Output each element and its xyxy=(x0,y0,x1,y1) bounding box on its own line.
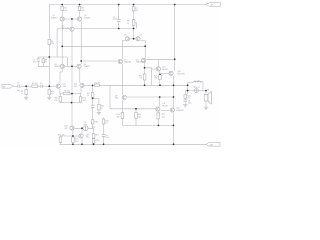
junction (93.5,144.3) xyxy=(93,143,95,145)
resistor x136 pulldown xyxy=(135,113,138,119)
svg-text:2SC5200: 2SC5200 xyxy=(177,73,184,75)
capacitor C3 series xyxy=(41,85,42,88)
wire y46.3 line to VAS xyxy=(62,45,145,47)
transistor Q5 helper xyxy=(70,27,74,31)
resistor bias column lower a xyxy=(92,134,95,139)
wire output line2 y95.4 xyxy=(127,96,174,98)
junction (133.6,4.5) xyxy=(133,4,135,6)
resistor x92.6 bias feed xyxy=(91,120,94,124)
junction (103.5,144.3) xyxy=(103,143,105,145)
wire C2 branch xyxy=(37,57,39,67)
wire input line flag to C1 xyxy=(13,85,18,87)
svg-text:1k: 1k xyxy=(45,62,47,64)
wire inductor right leg xyxy=(202,83,204,91)
junction (118.7,4.5) xyxy=(118,4,120,6)
junction (72,66.3) xyxy=(71,65,73,67)
svg-text:8R: 8R xyxy=(207,90,210,92)
wire x136 pulldown R column xyxy=(135,109,137,126)
transistor Q4 cascode xyxy=(77,64,81,68)
wire Q11 emitter up xyxy=(159,97,161,107)
wire Q9b collector up xyxy=(81,128,83,133)
wire input shunt R leg xyxy=(25,86,27,97)
wire LTP-R base to feedback node xyxy=(85,84,93,86)
transistor QA vas upper left xyxy=(125,37,129,41)
wire zobel branch xyxy=(185,91,187,105)
wire QD node to Q8 base xyxy=(145,68,157,69)
wire Q11 collector down through R xyxy=(158,112,159,126)
wire y66.6 bottom of RC xyxy=(38,66,49,68)
svg-text:2SC: 2SC xyxy=(115,98,119,100)
wire x110 corner down to lower driver base line xyxy=(110,85,155,109)
transistor Q8 bias xyxy=(156,67,160,71)
svg-text:100n: 100n xyxy=(188,102,192,104)
junction (160,85.3) xyxy=(159,84,161,86)
transistor LTP left xyxy=(56,84,60,88)
wire Q12 collector to V- rail xyxy=(173,113,175,145)
resistor Q11 collector xyxy=(157,113,160,119)
svg-text:100u: 100u xyxy=(105,137,109,139)
fuse/meter element on output line xyxy=(194,89,198,93)
wire Q5 base to x57 column xyxy=(57,29,69,57)
svg-text:100: 100 xyxy=(82,10,85,12)
wire speaker to ground xyxy=(205,101,207,107)
net flag -V xyxy=(206,143,220,147)
svg-text:R9 47k: R9 47k xyxy=(95,82,101,84)
junction (62.2,4.5) xyxy=(61,4,63,6)
resistor fb shunt xyxy=(98,104,101,110)
wire QB emitter to QD collector xyxy=(141,40,146,59)
resistor QE emitter xyxy=(121,113,124,119)
wire Q4 collector to VAS base xyxy=(81,60,118,62)
wire QA-QB base wire xyxy=(130,38,136,40)
resistor feedback series xyxy=(94,84,99,86)
transistor LTP right xyxy=(80,83,84,87)
svg-text:RE 100: RE 100 xyxy=(64,91,70,93)
svg-text:47u: 47u xyxy=(33,62,36,64)
svg-text:2SA970: 2SA970 xyxy=(54,65,60,68)
junction (72.9,144.3) xyxy=(72,143,74,145)
resistor R4 xyxy=(42,59,45,63)
svg-text:100p: 100p xyxy=(113,19,117,21)
wire y57 bias line xyxy=(38,56,68,58)
wire QD emitter down to dot xyxy=(143,63,145,85)
transistor Q10 upper driver xyxy=(169,71,173,75)
junction (158.4,125.4) xyxy=(158,125,160,127)
wire QC emitter to QE base xyxy=(121,64,123,95)
transistor Q11 lower driver xyxy=(156,107,160,111)
wire bias column to rail xyxy=(93,128,95,144)
svg-text:2k2: 2k2 xyxy=(135,10,138,12)
wire R7 column x133.6 xyxy=(133,5,135,39)
diode D1 led xyxy=(83,126,88,131)
svg-text:Q7: Q7 xyxy=(139,35,141,37)
wire feedback node down to R xyxy=(92,85,94,105)
wire V- rail xyxy=(60,143,207,145)
svg-text:BD140: BD140 xyxy=(162,105,167,107)
svg-text:2SA970: 2SA970 xyxy=(51,16,57,19)
wire corner x67.4 to cascode base rail xyxy=(66,57,68,66)
speaker LS1 xyxy=(204,91,211,104)
capacitor C7 comp xyxy=(117,19,121,21)
junction (136,108.8) xyxy=(135,108,137,110)
wire Q4 emitter to LTP-R collector xyxy=(79,69,81,83)
svg-text:1k: 1k xyxy=(21,93,23,95)
resistor R3 xyxy=(48,40,51,45)
svg-text:100: 100 xyxy=(83,100,86,102)
junction (173.5,85.3) xyxy=(173,84,175,86)
junction (133.6,28.5) xyxy=(133,28,135,30)
wire Q8 emitter to R xyxy=(159,71,161,85)
wire cascode base wire Q3-Q4 xyxy=(65,65,76,67)
resistor R6 xyxy=(78,6,81,10)
ground base bias xyxy=(47,97,51,99)
svg-text:100: 100 xyxy=(117,116,120,118)
wire Q5 base-right long line xyxy=(75,28,134,30)
svg-text:100: 100 xyxy=(54,100,57,102)
wire y59.3 VAS output line xyxy=(146,58,175,60)
svg-text:R1 2k2: R1 2k2 xyxy=(32,83,38,85)
resistor R5 xyxy=(25,6,187,143)
junction (133.6,38.8) xyxy=(133,38,135,40)
junction (71.9,19) xyxy=(71,18,73,20)
svg-text:100: 100 xyxy=(138,116,141,118)
ground zobel xyxy=(183,105,187,107)
junction (173.5,97) xyxy=(173,96,175,98)
wire Q1 emitter to R5 xyxy=(61,5,63,17)
wire left bias R leg xyxy=(60,136,62,144)
resistor LTP base bias xyxy=(48,90,51,95)
wire output node line to speaker xyxy=(188,91,206,95)
wire R1 to C3 xyxy=(38,85,41,87)
ground fb shunt xyxy=(97,113,101,115)
wire LTP-L emitter to degeneration R xyxy=(60,89,64,94)
svg-text:C3: C3 xyxy=(40,83,42,85)
capacitor C1 input electrolytic xyxy=(18,85,20,88)
junction (72,93.6) xyxy=(71,93,73,95)
transistor QD vas lower right xyxy=(141,58,145,62)
svg-text:1k: 1k xyxy=(87,95,89,97)
junction (173.5,144.3) xyxy=(173,143,175,145)
svg-text:L1 2uH: L1 2uH xyxy=(194,80,200,82)
svg-text:22k: 22k xyxy=(51,43,54,45)
transistor Q9b ccs helper xyxy=(79,134,83,138)
wire feedback line1 y85.3 xyxy=(99,84,187,86)
junction (72.9,136) xyxy=(72,135,74,137)
wire inductor left leg xyxy=(188,83,193,95)
wire QE emitter down xyxy=(121,100,123,125)
wire Q11 to Q12 base xyxy=(161,110,170,112)
net flag input xyxy=(2,84,13,88)
ground speaker xyxy=(204,107,208,109)
resistor R7 upper xyxy=(132,7,135,12)
svg-text:LED: LED xyxy=(84,124,88,126)
svg-text:100: 100 xyxy=(162,116,165,118)
junction (174.7,59.3) xyxy=(174,58,176,60)
net flag +V xyxy=(206,3,221,7)
wire trimmer wiper xyxy=(135,23,137,29)
svg-text:220: 220 xyxy=(139,78,142,80)
svg-text:10: 10 xyxy=(105,123,107,125)
capacitor x92.6 xyxy=(91,105,95,107)
wire feedback cap to bias column xyxy=(92,107,95,128)
transistor Q1 xyxy=(60,17,64,21)
junction (49.3,86.2) xyxy=(48,85,50,87)
resistor LTP-L lower xyxy=(59,97,61,103)
resistor x103.5 upper xyxy=(102,119,105,124)
wire fb node to shunt column xyxy=(93,98,99,104)
resistor Q7 emitter xyxy=(72,137,75,142)
svg-text:R24 10: R24 10 xyxy=(194,87,200,89)
wire left column R3 to input node xyxy=(48,45,50,87)
wire C1 to input dot xyxy=(20,85,32,87)
junction (62.2,46.3) xyxy=(61,45,63,47)
junction (92.6,85.4) xyxy=(92,85,94,87)
wire V+ rail xyxy=(49,4,206,6)
svg-text:C1: C1 xyxy=(17,83,19,85)
svg-text:2SC: 2SC xyxy=(64,128,68,130)
resistor LTP degeneration xyxy=(64,92,71,94)
wire Q8 base lower R xyxy=(151,69,153,85)
svg-text:R27: R27 xyxy=(95,135,98,137)
junction (187.6,90.6) xyxy=(187,90,189,92)
svg-text:Q14: Q14 xyxy=(92,126,95,128)
junction (82,144.3) xyxy=(81,143,83,145)
wire V+ column to Q10 collector xyxy=(174,5,176,71)
svg-text:2SA970: 2SA970 xyxy=(84,16,90,19)
svg-text:2SA1209: 2SA1209 xyxy=(136,61,143,64)
junction (206,90.6) xyxy=(205,90,207,92)
wire Q1 collector down to Q3 xyxy=(61,22,63,64)
junction (173.5,125.4) xyxy=(173,125,175,127)
svg-text:220: 220 xyxy=(154,78,157,80)
svg-text:10: 10 xyxy=(187,97,189,99)
wire Q10 emitter / output devices column xyxy=(173,76,175,108)
svg-text:2SC1775: 2SC1775 xyxy=(62,28,69,30)
junction (118.7,28.5) xyxy=(118,28,120,30)
inductor L1 xyxy=(193,81,203,82)
svg-text:100: 100 xyxy=(75,141,78,143)
junction (26.2,86.2) xyxy=(25,85,27,87)
junction (144.6,85.3) xyxy=(144,84,146,86)
wire Q5 collector to mirror bases xyxy=(71,19,73,27)
wire C3 to LTP base node xyxy=(43,85,50,87)
junction (159.7,97) xyxy=(159,96,161,98)
junction (82,128.3) xyxy=(81,127,83,129)
wire Q7 base to diode xyxy=(75,127,94,129)
svg-text:2SC: 2SC xyxy=(86,137,90,139)
wire LTP-L lower resistor leg xyxy=(60,94,71,103)
svg-text:R18: R18 xyxy=(94,122,97,124)
junction (145.2,46.3) xyxy=(144,45,146,47)
wire Q5 emitter / tail column xyxy=(71,32,73,126)
resistor Q8 emitter xyxy=(159,75,162,80)
wire Q8 collector xyxy=(157,59,159,66)
junction (79.5,4.5) xyxy=(79,4,81,6)
transistor Q12 lower output xyxy=(170,108,174,112)
junction (174.7,4.5) xyxy=(174,4,176,6)
wire Q1-Q2 base row xyxy=(65,18,77,20)
capacitor x103.5 electrolytic xyxy=(102,134,106,136)
resistor R2 input shunt xyxy=(25,90,28,95)
svg-text:R28: R28 xyxy=(95,140,98,142)
capacitor C2 xyxy=(37,59,40,61)
wire degeneration R to LTP-R emitter xyxy=(70,88,81,94)
svg-text:2SC: 2SC xyxy=(63,86,67,88)
wire input node to LTP-L base xyxy=(49,85,55,87)
svg-text:2SC: 2SC xyxy=(74,86,78,88)
transistor Q7 ccs xyxy=(70,126,74,130)
resistor bias left xyxy=(59,137,62,142)
wire y125.4 lower bias line xyxy=(122,124,173,126)
value and reference labels xyxy=(17,8,210,143)
wire R4 branch xyxy=(42,57,44,67)
resistor R1 series input xyxy=(32,85,38,87)
svg-text:1k: 1k xyxy=(127,23,129,25)
svg-text:+35: +35 xyxy=(206,3,209,5)
svg-text:10u: 10u xyxy=(17,90,20,92)
wire LTP-R lower resistor leg xyxy=(72,94,81,103)
wire comp cap column x118.7 xyxy=(118,5,120,29)
resistor QD emitter xyxy=(143,74,146,80)
svg-text:2SA1943: 2SA1943 xyxy=(176,109,183,112)
resistor LTP-R lower xyxy=(79,97,81,103)
junction (144.6,67.8) xyxy=(144,67,146,69)
svg-text:Q6: Q6 xyxy=(124,35,126,37)
wire left column x49 from rail to R3 xyxy=(48,5,50,40)
svg-text:2SA1209: 2SA1209 xyxy=(124,61,131,64)
transistor QB vas upper right xyxy=(136,37,140,41)
ground input shunt xyxy=(24,97,28,99)
transistor Q3 cascode xyxy=(60,64,64,68)
svg-text:100: 100 xyxy=(64,10,67,12)
wire Q7 emitter down xyxy=(72,131,74,145)
svg-text:1k: 1k xyxy=(101,108,103,110)
transistor QC vas lower left xyxy=(118,59,122,63)
svg-text:BD139: BD139 xyxy=(162,69,167,71)
junction (92.6,98.4) xyxy=(92,98,94,100)
wire x103.5 column xyxy=(103,118,105,145)
svg-text:47k: 47k xyxy=(51,93,54,95)
resistor zobel xyxy=(184,94,187,98)
wire QA emitter to QC collector xyxy=(122,40,125,59)
junction (160,74.3) xyxy=(159,74,161,76)
wire Q2 collector down to Q4 xyxy=(80,21,82,64)
wire Q2 emitter to R6 xyxy=(79,5,81,17)
transistor Q2 xyxy=(77,17,81,21)
junction (49.3,57) xyxy=(48,56,50,58)
wire Q10 base stub xyxy=(161,73,168,75)
capacitor zobel xyxy=(184,100,188,102)
wire bias row y136 xyxy=(61,135,79,137)
junction (81.2,61) xyxy=(80,60,82,62)
resistor feedback lower xyxy=(91,92,94,97)
wire Q9b emitter down xyxy=(81,139,83,145)
wire shunt R to cap xyxy=(98,110,100,112)
resistor R7 trimmer xyxy=(132,20,135,26)
transistor QE vas2 xyxy=(122,95,126,99)
wire Q3 emitter to LTP-L collector xyxy=(60,69,62,84)
wire base bias R leg xyxy=(48,86,50,97)
junction (71.5,102.6) xyxy=(71,102,73,104)
resistor bias column lower b xyxy=(92,139,95,144)
junction (187.6,85.3) xyxy=(187,84,189,86)
svg-text:2SA970: 2SA970 xyxy=(84,65,90,68)
svg-text:R20 220: R20 220 xyxy=(58,134,65,136)
